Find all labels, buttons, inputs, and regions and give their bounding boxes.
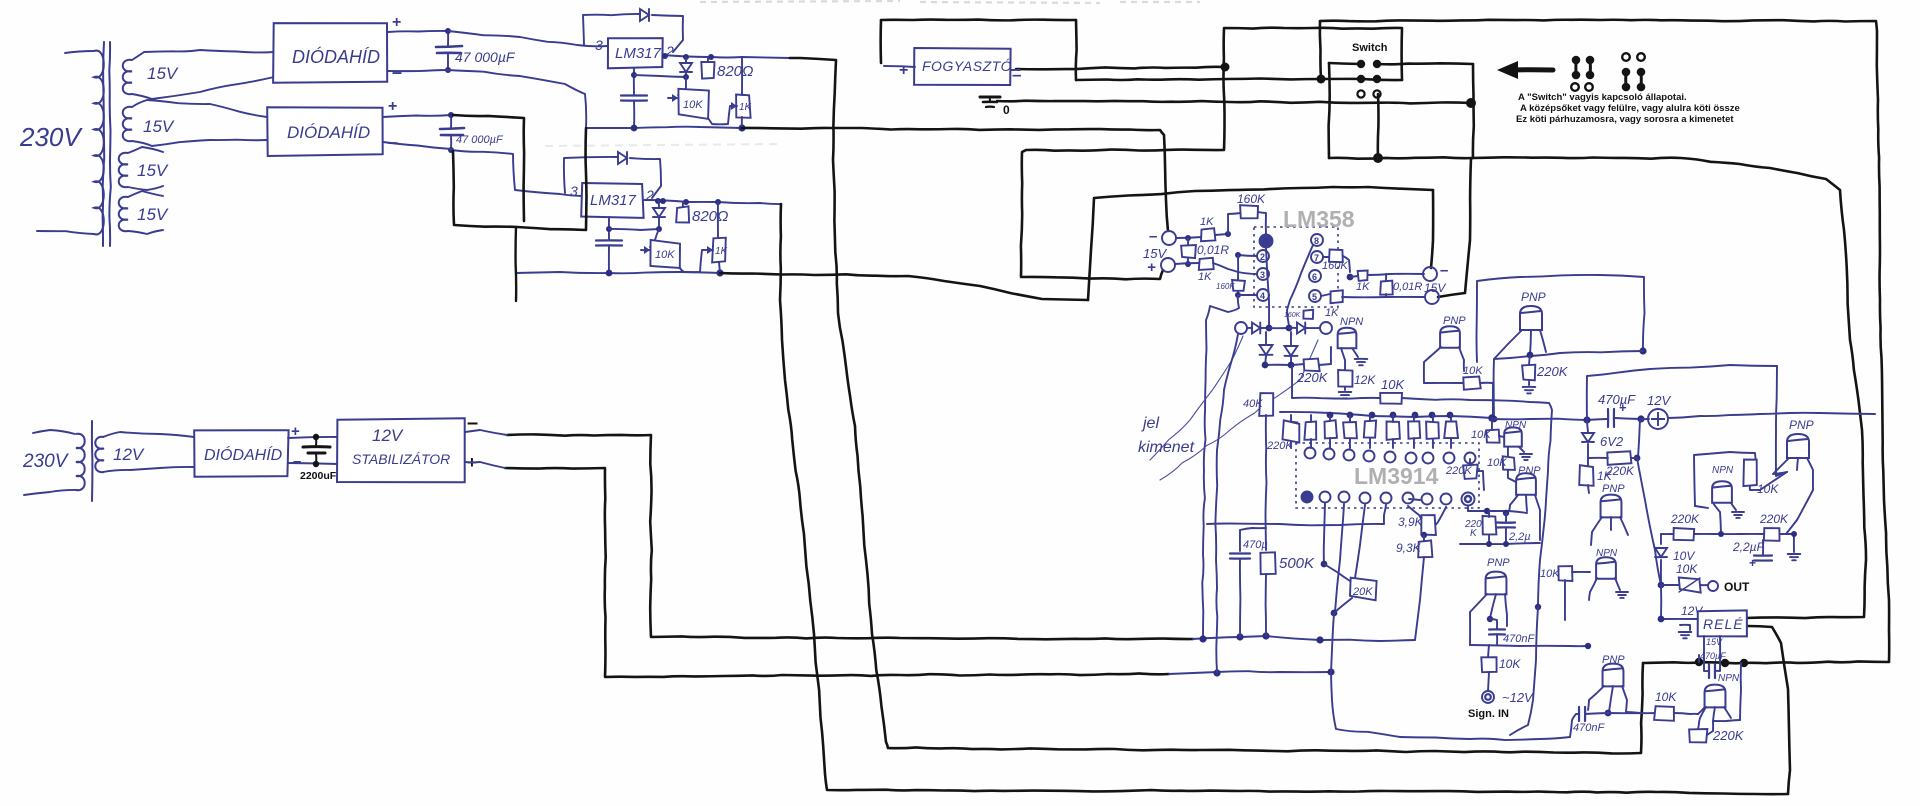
svg-text:2: 2 bbox=[1260, 252, 1265, 262]
svg-text:0: 0 bbox=[1003, 103, 1010, 117]
svg-text:10K: 10K bbox=[683, 99, 703, 111]
svg-text:+: + bbox=[392, 14, 401, 31]
svg-text:~12V: ~12V bbox=[1502, 690, 1534, 705]
svg-text:6V2: 6V2 bbox=[1600, 434, 1624, 449]
svg-text:2200uF: 2200uF bbox=[300, 470, 337, 482]
svg-text:470µF: 470µF bbox=[1598, 392, 1636, 407]
svg-text:470µF: 470µF bbox=[1700, 651, 1726, 661]
svg-text:LM358: LM358 bbox=[1283, 206, 1355, 232]
svg-text:Switch: Switch bbox=[1352, 42, 1388, 54]
svg-text:160K: 160K bbox=[1216, 282, 1235, 291]
svg-text:220K: 220K bbox=[1536, 364, 1569, 379]
svg-text:PNP: PNP bbox=[1443, 315, 1466, 327]
svg-text:10K: 10K bbox=[1381, 377, 1405, 392]
svg-text:1K: 1K bbox=[1597, 469, 1613, 483]
svg-text:Ez köti párhuzamosra, vagy sor: Ez köti párhuzamosra, vagy sorosra a kim… bbox=[1516, 114, 1734, 125]
svg-text:3: 3 bbox=[1260, 270, 1265, 280]
svg-text:15V: 15V bbox=[1143, 246, 1167, 261]
svg-text:PNP: PNP bbox=[1602, 483, 1625, 495]
svg-text:A "Switch" vagyis kapcsoló áll: A "Switch" vagyis kapcsoló állapotai. bbox=[1518, 92, 1687, 103]
svg-text:1K: 1K bbox=[1200, 216, 1214, 228]
svg-text:220K: 220K bbox=[1296, 370, 1329, 385]
svg-text:+: + bbox=[899, 62, 908, 79]
svg-text:20K: 20K bbox=[1352, 586, 1373, 598]
svg-text:+: + bbox=[1749, 556, 1756, 570]
svg-text:12V: 12V bbox=[113, 445, 145, 464]
svg-text:3,9K: 3,9K bbox=[1398, 515, 1424, 529]
svg-text:0,01R: 0,01R bbox=[1393, 281, 1422, 293]
svg-text:PNP: PNP bbox=[1602, 654, 1625, 666]
svg-text:220K: 220K bbox=[1266, 440, 1293, 452]
svg-text:2,2µF: 2,2µF bbox=[1732, 540, 1765, 554]
svg-text:–: – bbox=[1149, 228, 1157, 245]
svg-text:47 000µF: 47 000µF bbox=[455, 49, 516, 65]
svg-text:–: – bbox=[1440, 262, 1448, 279]
svg-text:15V: 15V bbox=[1424, 281, 1446, 295]
svg-text:10K: 10K bbox=[1676, 562, 1698, 576]
svg-text:10K: 10K bbox=[1463, 365, 1483, 377]
svg-text:1K: 1K bbox=[1198, 271, 1212, 283]
svg-text:NPN: NPN bbox=[1712, 465, 1734, 476]
svg-text:Sign. IN: Sign. IN bbox=[1468, 708, 1509, 720]
svg-text:12V: 12V bbox=[372, 426, 404, 445]
svg-text:DIÓDAHÍD: DIÓDAHÍD bbox=[287, 123, 370, 142]
svg-text:0,01R: 0,01R bbox=[1197, 243, 1229, 257]
svg-text:3: 3 bbox=[595, 37, 603, 53]
svg-text:DIÓDAHÍD: DIÓDAHÍD bbox=[204, 445, 283, 464]
svg-text:220K: 220K bbox=[1670, 512, 1700, 526]
svg-text:470nF: 470nF bbox=[1503, 633, 1535, 645]
svg-text:7: 7 bbox=[1314, 253, 1319, 263]
svg-text:10K: 10K bbox=[1655, 690, 1677, 704]
svg-text:9,3K: 9,3K bbox=[1396, 541, 1422, 555]
svg-text:RELÉ: RELÉ bbox=[1703, 616, 1744, 632]
svg-text:220K: 220K bbox=[1445, 465, 1472, 477]
svg-text:6: 6 bbox=[1312, 272, 1317, 282]
svg-text:10K: 10K bbox=[1540, 568, 1560, 580]
svg-text:+: + bbox=[388, 98, 397, 115]
svg-text:10K: 10K bbox=[1487, 457, 1507, 469]
svg-text:1K: 1K bbox=[1356, 281, 1370, 293]
svg-text:40K: 40K bbox=[1243, 398, 1263, 410]
svg-text:12K: 12K bbox=[1354, 373, 1376, 387]
svg-text:15V: 15V bbox=[143, 117, 175, 136]
svg-text:OUT: OUT bbox=[1724, 580, 1750, 594]
svg-text:1K: 1K bbox=[715, 246, 729, 257]
svg-text:STABILIZÁTOR: STABILIZÁTOR bbox=[352, 451, 450, 467]
svg-text:+: + bbox=[1147, 259, 1156, 276]
svg-text:LM3914: LM3914 bbox=[1354, 463, 1439, 489]
svg-text:PNP: PNP bbox=[1521, 290, 1546, 304]
svg-text:10K: 10K bbox=[1499, 657, 1521, 671]
svg-text:1K: 1K bbox=[1325, 307, 1339, 319]
svg-text:160K: 160K bbox=[1237, 192, 1266, 206]
svg-text:–: – bbox=[293, 453, 301, 470]
svg-text:5: 5 bbox=[1312, 292, 1317, 302]
svg-text:47 000µF: 47 000µF bbox=[456, 134, 504, 146]
svg-text:FOGYASZTÓ: FOGYASZTÓ bbox=[922, 58, 1012, 74]
svg-text:1K: 1K bbox=[739, 102, 753, 113]
svg-text:820Ω: 820Ω bbox=[717, 63, 753, 80]
svg-text:PNP: PNP bbox=[1487, 557, 1510, 569]
svg-text:NPN: NPN bbox=[1718, 673, 1740, 684]
svg-text:NPN: NPN bbox=[1505, 420, 1527, 431]
svg-text:kimenet: kimenet bbox=[1138, 439, 1195, 456]
svg-text:2,2µ: 2,2µ bbox=[1508, 531, 1531, 543]
svg-text:4: 4 bbox=[1260, 291, 1265, 301]
svg-text:A középsőket vagy felülre, vag: A középsőket vagy felülre, vagy alulra k… bbox=[1520, 103, 1740, 114]
svg-text:500K: 500K bbox=[1279, 555, 1315, 572]
svg-text:220K: 220K bbox=[1712, 728, 1745, 743]
svg-text:DIÓDAHÍD: DIÓDAHÍD bbox=[292, 46, 380, 67]
svg-text:160K: 160K bbox=[1322, 260, 1348, 272]
svg-text:230V: 230V bbox=[22, 451, 70, 472]
svg-text:15V: 15V bbox=[137, 205, 169, 224]
svg-text:NPN: NPN bbox=[1596, 548, 1618, 559]
svg-text:NPN: NPN bbox=[1340, 316, 1363, 328]
svg-text:15V: 15V bbox=[137, 161, 169, 180]
svg-text:jel: jel bbox=[1141, 415, 1159, 432]
svg-text:8: 8 bbox=[1314, 236, 1319, 246]
svg-text:10K: 10K bbox=[655, 249, 675, 261]
svg-text:LM317: LM317 bbox=[590, 192, 637, 209]
svg-text:PNP: PNP bbox=[1518, 465, 1541, 477]
svg-text:220K: 220K bbox=[1759, 512, 1789, 526]
svg-text:3: 3 bbox=[570, 183, 578, 199]
svg-text:12V: 12V bbox=[1647, 393, 1671, 408]
svg-text:15V: 15V bbox=[147, 64, 179, 83]
svg-text:PNP: PNP bbox=[1789, 418, 1814, 432]
svg-text:820Ω: 820Ω bbox=[692, 208, 728, 225]
svg-text:230V: 230V bbox=[19, 122, 83, 152]
svg-text:470µ: 470µ bbox=[1243, 539, 1268, 551]
svg-text:–: – bbox=[1012, 65, 1021, 84]
svg-text:470nF: 470nF bbox=[1573, 722, 1605, 734]
svg-text:10K: 10K bbox=[1471, 429, 1491, 441]
svg-text:10V: 10V bbox=[1673, 549, 1695, 563]
svg-text:LM317: LM317 bbox=[615, 45, 662, 62]
